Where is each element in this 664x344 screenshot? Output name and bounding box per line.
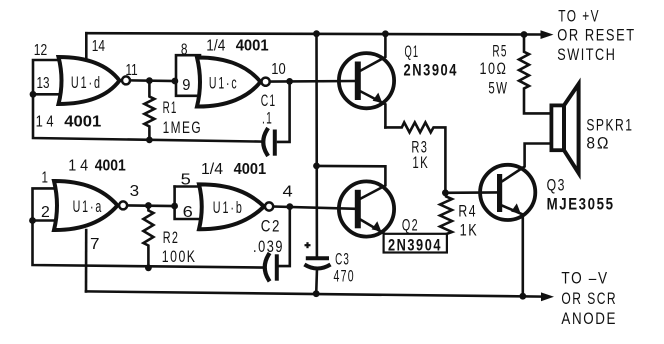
arrow to +V <box>541 30 554 39</box>
resistor R3 1K <box>385 122 445 192</box>
node dot C3 bottom rail <box>313 290 320 297</box>
svg-text:TO –V: TO –V <box>561 270 608 288</box>
wire top +V rail <box>86 33 542 34</box>
svg-text:13: 13 <box>37 75 50 92</box>
svg-text:R2: R2 <box>163 229 180 247</box>
node dot R2 top <box>145 202 152 209</box>
svg-text:2N3904: 2N3904 <box>388 237 442 255</box>
svg-text:14: 14 <box>92 38 105 55</box>
speaker SPKR1 cone <box>564 84 579 173</box>
svg-text:U1·d: U1·d <box>71 73 102 92</box>
wire mid vertical rail (top rail to C3) <box>315 34 318 257</box>
resistor R2 100K <box>143 206 153 268</box>
node dot Q3 base junction <box>442 189 449 196</box>
transistor Q1 collector wire <box>361 34 386 71</box>
capacitor C1 .1 left curved plate <box>263 130 267 154</box>
svg-text:4001: 4001 <box>234 161 267 178</box>
capacitor C1 .1 right plate <box>273 132 277 154</box>
wire Q3 collector to speaker <box>503 144 552 182</box>
node dot U1-c bracket <box>172 78 179 85</box>
node dot R1 bottom <box>146 137 153 144</box>
svg-text:9: 9 <box>182 77 190 94</box>
node dot Q2 collector / mid rail <box>313 163 320 170</box>
wire U1-c input bracket pins 8/9 <box>176 55 200 96</box>
wire C3 bottom to -V rail <box>315 272 318 294</box>
wire U1-a output to U1-b input <box>128 204 175 207</box>
svg-text:11: 11 <box>126 62 138 79</box>
transistor Q3 MJE3055 <box>480 165 535 220</box>
wire U1-c output node to Q1 base <box>270 80 355 83</box>
output bubble U1-c pin 10 <box>262 78 270 86</box>
capacitor C2 .039 left curved plate <box>265 255 269 280</box>
speaker SPKR1 driver rect <box>551 105 564 150</box>
resistor R1 1MEG <box>144 81 154 140</box>
wire U1-d input bracket pins 12/13 <box>33 60 60 94</box>
capacitor C3 470 top plate <box>306 256 329 260</box>
svg-text:100K: 100K <box>162 248 197 266</box>
node dot U1-d bracket <box>30 91 37 98</box>
svg-text:1MEG: 1MEG <box>163 119 203 137</box>
svg-text:1K: 1K <box>460 222 479 240</box>
svg-text:2: 2 <box>41 204 50 221</box>
svg-text:10Ω: 10Ω <box>480 60 508 78</box>
wire U1-b input bracket pins 5/6 <box>175 187 200 220</box>
transistor Q2 collector wire to mid rail <box>317 166 386 199</box>
svg-text:4001: 4001 <box>95 157 126 174</box>
output bubble U1-a pin 3 <box>119 201 127 209</box>
svg-text:1K: 1K <box>412 154 429 172</box>
svg-text:OR SCR: OR SCR <box>561 290 617 308</box>
svg-text:SPKR1: SPKR1 <box>586 117 633 135</box>
svg-text:TO +V: TO +V <box>558 7 600 25</box>
transistor Q2 2N3904 <box>339 181 394 236</box>
svg-text:5W: 5W <box>488 79 508 97</box>
svg-text:MJE3055: MJE3055 <box>547 195 615 213</box>
svg-text:Q2: Q2 <box>402 216 419 234</box>
svg-text:Q1: Q1 <box>405 43 420 61</box>
wire U1-a feedback drop to C2 <box>33 221 264 268</box>
svg-text:.039: .039 <box>253 238 284 256</box>
wire pin 14 drop to U1-d <box>85 33 88 59</box>
wire Q3 base <box>445 191 497 194</box>
svg-text:C1: C1 <box>261 92 277 110</box>
wire Q3 emitter to -V rail <box>503 206 523 296</box>
capacitor C3 470 bottom curved plate <box>304 265 330 269</box>
C3 plus sign <box>305 242 311 248</box>
svg-text:8: 8 <box>181 41 188 58</box>
svg-text:8Ω: 8Ω <box>586 135 610 153</box>
svg-text:R5: R5 <box>492 43 507 61</box>
svg-text:6: 6 <box>183 204 193 221</box>
node dot U1-b bracket <box>171 203 178 210</box>
node dot node 4 <box>286 203 293 210</box>
svg-text:1: 1 <box>42 170 49 187</box>
svg-text:4: 4 <box>283 184 293 201</box>
svg-text:.1: .1 <box>262 110 273 128</box>
svg-text:ANODE: ANODE <box>561 310 617 328</box>
svg-text:5: 5 <box>181 171 191 188</box>
node dot U1-a bracket <box>29 217 36 224</box>
svg-text:3: 3 <box>130 183 140 200</box>
wire bottom -V rail <box>86 291 543 296</box>
svg-text:1/4: 1/4 <box>206 37 225 54</box>
svg-text:10: 10 <box>271 61 285 78</box>
svg-text:2N3904: 2N3904 <box>404 62 459 80</box>
svg-text:R4: R4 <box>458 203 477 221</box>
output bubble U1-d pin 11 <box>122 76 130 84</box>
wire U1-d feedback drop <box>33 94 262 141</box>
transistor Q1 2N3904 <box>339 53 394 108</box>
svg-text:7: 7 <box>90 236 100 253</box>
wire Q2 emitter to box <box>361 220 384 233</box>
resistor R4 1K <box>440 193 452 234</box>
svg-text:1 4: 1 4 <box>36 114 54 131</box>
resistor R5 10ohm <box>519 35 551 114</box>
node dot Q3 emitter rail <box>519 293 526 300</box>
svg-text:Q3: Q3 <box>547 177 566 195</box>
NOR gate U1-b <box>199 184 273 229</box>
svg-text:R1: R1 <box>163 99 178 117</box>
node dot R2 bottom <box>145 264 152 271</box>
box around 2N3904 label of Q2 <box>384 234 447 253</box>
wire C2 branch from node 4 <box>280 207 290 267</box>
wire U1-a input bracket pins 1/2 <box>33 188 57 220</box>
node dot top rail / Q1 collector <box>382 30 389 37</box>
wire C1 branch from node 10 <box>278 81 290 141</box>
svg-text:OR RESET: OR RESET <box>557 27 635 45</box>
output bubble U1-b pin 4 <box>265 202 273 210</box>
wire pin 7 drop from U1-a to -V rail <box>85 230 88 291</box>
svg-text:U1·a: U1·a <box>73 197 104 216</box>
NOR gate U1-d <box>59 57 131 104</box>
svg-text:4001: 4001 <box>236 37 269 54</box>
svg-text:4001: 4001 <box>64 114 101 131</box>
wire U1-d output to U1-c input <box>131 79 177 82</box>
node dot 10 output node <box>286 78 293 85</box>
node dot R1 top <box>146 77 153 84</box>
svg-text:470: 470 <box>334 267 355 285</box>
wire U1-b output node to Q2 base <box>274 207 355 209</box>
svg-text:C3: C3 <box>335 251 350 269</box>
transistor Q1 emitter wire to R3 <box>361 92 386 128</box>
svg-text:U1·b: U1·b <box>213 198 244 217</box>
node dot top rail / mid rail <box>313 30 320 37</box>
svg-text:SWITCH: SWITCH <box>557 46 616 64</box>
capacitor C2 .039 right plate <box>275 256 279 278</box>
svg-text:1/4: 1/4 <box>201 161 223 178</box>
NOR gate U1-c <box>197 57 270 106</box>
svg-text:1 4: 1 4 <box>68 157 88 174</box>
node dot top rail / R5 <box>521 31 528 38</box>
svg-text:C2: C2 <box>261 217 281 235</box>
NOR gate U1-a <box>54 181 127 230</box>
svg-text:U1·c: U1·c <box>209 73 239 92</box>
arrow to -V <box>541 292 554 301</box>
svg-text:12: 12 <box>34 42 47 59</box>
